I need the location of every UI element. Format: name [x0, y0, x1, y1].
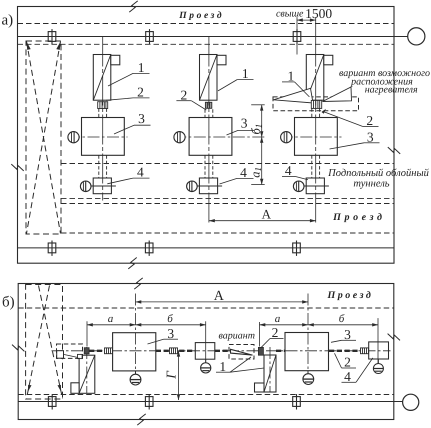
coupling hatch block b1 left — [105, 348, 113, 354]
svg-text:а): а) — [2, 13, 14, 29]
svg-text:туннель: туннель — [353, 179, 389, 190]
thick shaft segment 1 — [89, 350, 104, 352]
label 1 machine A3 — [282, 69, 309, 97]
heater variant machine B2 element — [231, 349, 253, 355]
drive symbol component 4 machine A3 — [293, 181, 304, 192]
heater variant machine B1 element — [57, 351, 64, 359]
component 4 machine A1 — [93, 178, 111, 194]
label 4 right machine B2 — [342, 358, 373, 384]
component 1 machine A2 — [200, 55, 218, 101]
svg-text:4: 4 — [137, 165, 144, 180]
gate X-brace a — [26, 41, 61, 234]
label 2 top machine B2 — [261, 325, 284, 348]
component 1 machine A1 (drive with lever) — [93, 55, 111, 101]
dimension A section b — [136, 289, 309, 304]
dashed line 2 a — [18, 43, 395, 45]
coupling machine B2 — [258, 347, 263, 355]
svg-text:3: 3 — [241, 116, 248, 131]
column b 3 — [293, 394, 301, 409]
svg-text:А: А — [262, 206, 272, 221]
svg-text:2: 2 — [366, 113, 373, 128]
component 2 machine A3 (coupling) — [311, 100, 321, 108]
component 3 machine A3 — [295, 118, 338, 156]
axis component 3 machine A1 — [68, 136, 128, 138]
dimension A section a — [209, 206, 316, 221]
svg-text:3: 3 — [344, 327, 351, 342]
dashed line mid a — [61, 163, 394, 165]
svyshe 1500 dimension — [276, 6, 332, 54]
circle buffer b — [403, 394, 419, 410]
svg-text:Подпольный облойный: Подпольный облойный — [327, 168, 429, 179]
svg-text:Проезд: Проезд — [332, 212, 385, 223]
dashed tunnel line 2 a — [61, 203, 394, 205]
center line machine A1 — [102, 37, 104, 201]
heater variant machine B2 dashed box — [229, 345, 254, 360]
label 3 machine A2 — [227, 116, 255, 136]
component 4 machine B2 — [369, 342, 389, 359]
label 2 right machine B2 — [335, 353, 357, 369]
break left frame a — [11, 164, 23, 171]
svg-text:1: 1 — [242, 66, 249, 81]
axis component 4 machine A2 — [187, 185, 223, 187]
drain symbol component 4 machine B1 — [201, 363, 211, 373]
drain symbol component 3 machine B1 — [135, 371, 137, 374]
shaft machine A1 upper — [98, 109, 100, 118]
svg-text:4: 4 — [344, 369, 351, 384]
drive symbol component 3 machine A2 — [174, 132, 185, 143]
label 3 machine A1 — [114, 111, 151, 134]
label 1 machine A1 — [108, 60, 150, 86]
component 1 machine B1 — [79, 355, 95, 393]
shaft machine A2 upper — [204, 109, 206, 117]
thick shaft segment 5 — [329, 350, 361, 352]
svg-text:3: 3 — [138, 111, 145, 126]
heater variant dashed box — [273, 97, 359, 111]
drain symbol component 4 machine B2 — [373, 363, 383, 373]
component 3 machine A1 (feeder box) — [82, 118, 125, 156]
label 3 machine A3 — [330, 129, 380, 149]
frame section a — [18, 7, 395, 264]
axis component 4 machine A3 — [293, 185, 329, 187]
axis component 4 machine A1 — [80, 185, 116, 187]
column b 1 — [48, 394, 56, 409]
shaft machine A3 lower — [311, 155, 313, 178]
break right frame a — [388, 147, 400, 154]
svg-text:2: 2 — [181, 87, 188, 102]
svg-text:б): б) — [2, 295, 15, 311]
break left frame b — [12, 345, 24, 352]
column a top 3 — [293, 29, 301, 44]
component 4 machine A2 — [199, 178, 217, 194]
dimension a-b chain machine B1 — [87, 313, 206, 363]
shaft machine A3 upper — [311, 108, 313, 117]
component 3 machine A2 — [189, 118, 232, 156]
svg-text:1: 1 — [288, 69, 295, 84]
rail line bottom a — [18, 247, 395, 249]
column a bottom 3 — [293, 241, 301, 256]
drive symbol component 3 machine A3 — [281, 132, 292, 143]
thick shaft segment 2 — [156, 350, 196, 352]
axis component 3 machine A2 — [174, 136, 264, 138]
label 4 machine A2 — [220, 165, 254, 184]
label 1 machine A2 — [218, 66, 254, 91]
label 4 machine A3 — [282, 163, 308, 180]
dimension a-b chain machine B2 — [260, 313, 379, 364]
center line machine B2 — [307, 294, 309, 374]
thick shaft segment 3 — [215, 350, 229, 352]
svg-text:1500: 1500 — [305, 6, 332, 21]
dashed tunnel line 1 a — [61, 197, 394, 199]
rail line top a — [18, 36, 408, 38]
svg-text:нагревателя: нагревателя — [365, 85, 418, 96]
svg-text:вариант: вариант — [219, 331, 255, 342]
frame section b — [18, 284, 394, 420]
svg-text:свыше: свыше — [276, 9, 304, 20]
svg-text:2: 2 — [137, 85, 144, 100]
svg-text:1: 1 — [219, 359, 226, 374]
break top frame a — [129, 0, 137, 13]
component 1 machine B2 — [264, 355, 276, 392]
break bottom frame b — [137, 413, 145, 426]
heater variant machine B1 dashed box — [57, 344, 83, 358]
dimension G machine B1 — [164, 351, 179, 400]
main shaft axis b — [52, 350, 391, 352]
circle buffer a — [408, 28, 425, 45]
column a top 2 — [146, 29, 154, 44]
drain symbol component 3 machine B2 — [307, 371, 309, 374]
axis component 3 machine A3 — [281, 136, 342, 138]
center line machine A3 — [315, 37, 317, 224]
break top frame b — [134, 277, 142, 290]
rail line bottom b — [18, 401, 402, 403]
component 2 machine A2 (coupling) — [205, 102, 211, 108]
break right frame b — [388, 334, 400, 341]
svg-text:4: 4 — [240, 165, 247, 180]
label 2 machine A2 — [176, 87, 206, 110]
label 2 machine A1 — [106, 85, 150, 101]
label 4 machine A1 — [107, 165, 149, 184]
label 3 right machine B2 — [331, 327, 356, 342]
coupling hatch block b2 right — [361, 348, 369, 354]
center line machine B1 — [135, 294, 137, 375]
label 3 machine B1 — [148, 326, 179, 344]
svg-text:3: 3 — [367, 129, 374, 144]
column a top 1 — [48, 29, 56, 44]
dashed line bottom b — [18, 394, 394, 396]
svg-text:2: 2 — [344, 355, 351, 370]
dimension b1 a1 machine A2 — [248, 105, 264, 185]
svg-text:б: б — [167, 313, 173, 325]
drive symbol component 3 machine A1 — [68, 132, 79, 143]
coupling hatch block b1 right — [170, 348, 178, 354]
heater triangle left — [274, 88, 314, 103]
component 3 machine B1 — [113, 333, 156, 371]
shaft machine A2 lower — [204, 155, 206, 178]
drive symbol component 4 machine A1 — [80, 181, 91, 192]
coupling machine B1 — [84, 348, 89, 354]
svg-text:а: а — [108, 313, 114, 325]
svg-text:2: 2 — [272, 325, 279, 340]
svg-text:3: 3 — [167, 326, 174, 341]
svg-text:1: 1 — [138, 60, 145, 75]
dashed road line b — [18, 307, 394, 309]
component 3 machine B2 — [285, 333, 329, 371]
column a bottom 1 — [48, 241, 56, 256]
svg-text:а: а — [275, 313, 281, 325]
thick shaft segment 4 — [276, 350, 285, 352]
svg-text:б1: б1 — [249, 124, 264, 135]
column b 2 — [145, 394, 153, 409]
svg-text:Проезд: Проезд — [327, 290, 374, 301]
drive symbol component 4 machine A2 — [187, 181, 198, 192]
break bottom frame a — [128, 257, 136, 270]
component 4 machine B1 — [195, 343, 215, 360]
component 1 machine A3 — [306, 55, 324, 101]
center line machine A2 — [208, 37, 210, 224]
shaft machine A1 lower — [98, 155, 100, 178]
label 2 machine A3 — [322, 109, 379, 128]
dashed road line top a — [18, 23, 395, 25]
component 2 machine A1 (coupling) — [98, 102, 108, 109]
gate X-brace b — [26, 285, 63, 400]
heater triangle right — [323, 87, 352, 102]
svg-text:Г: Г — [164, 370, 179, 380]
svg-text:а1: а1 — [248, 167, 263, 178]
component 4 machine A3 — [306, 178, 324, 194]
svg-text:Проезд: Проезд — [178, 11, 224, 21]
svg-text:4: 4 — [285, 163, 292, 178]
column a bottom 2 — [145, 241, 153, 256]
svg-text:б: б — [339, 313, 345, 325]
svg-text:А: А — [214, 289, 225, 304]
label 1 machine B2 — [216, 357, 264, 374]
dashed line low a — [61, 232, 394, 234]
